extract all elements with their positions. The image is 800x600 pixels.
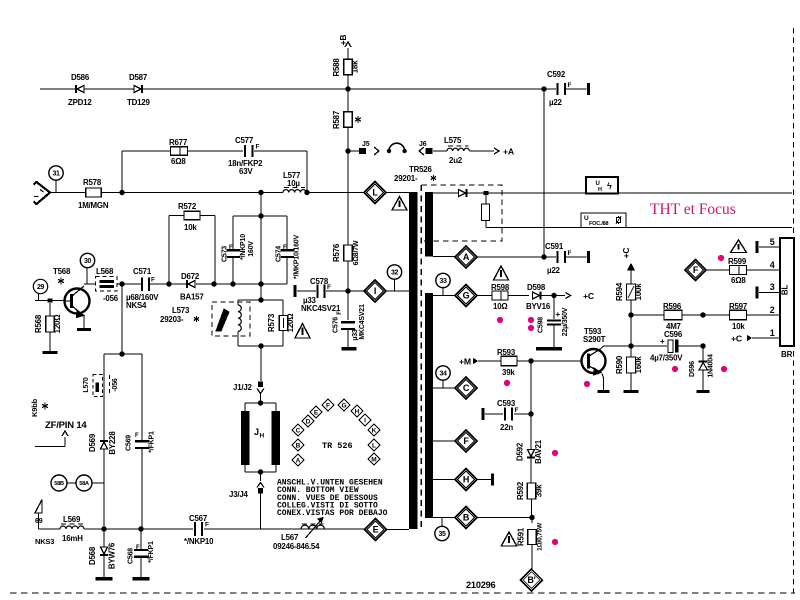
- capacitor C578: [293, 285, 296, 297]
- junction: [104, 528, 141, 530]
- svg-text:C568: C568: [128, 548, 135, 564]
- svg-text:+: +: [556, 310, 561, 319]
- junction: [258, 190, 263, 195]
- svg-text:*/FKP1: */FKP1: [148, 541, 155, 563]
- svg-text:R596: R596: [663, 302, 682, 311]
- svg-text:J6: J6: [419, 141, 427, 148]
- svg-text:TR526: TR526: [409, 165, 432, 174]
- junction: [541, 86, 546, 91]
- svg-text:F: F: [515, 407, 519, 414]
- wire R677 branch: [121, 151, 123, 193]
- resistor R588: [344, 59, 353, 75]
- ground: [624, 390, 639, 393]
- resistor R596: [664, 310, 682, 320]
- svg-text:L: L: [372, 442, 376, 449]
- svg-text:10k: 10k: [732, 322, 745, 331]
- svg-text:R677: R677: [169, 138, 188, 147]
- resistor R591: [528, 530, 537, 545]
- svg-text:ZF/PIN 14: ZF/PIN 14: [45, 420, 87, 431]
- warning triangle: [494, 266, 509, 280]
- test point B: [433, 517, 455, 519]
- junction: [101, 526, 106, 531]
- balloon 33: [436, 273, 450, 287]
- svg-text:-056: -056: [112, 378, 119, 392]
- svg-text:R572: R572: [178, 202, 197, 211]
- svg-text:L567: L567: [281, 533, 299, 542]
- resistor R594: [627, 284, 636, 300]
- svg-text:R591: R591: [517, 527, 526, 546]
- svg-text:29: 29: [37, 284, 44, 291]
- junction: [628, 312, 633, 317]
- marker dots: [497, 317, 503, 323]
- svg-text:+C: +C: [621, 248, 631, 259]
- capacitor C569: [135, 440, 149, 442]
- svg-text:J3/J4: J3/J4: [229, 490, 249, 499]
- svg-text:C593: C593: [497, 399, 516, 408]
- svg-text:I: I: [374, 286, 376, 296]
- box UFOC: [581, 213, 626, 228]
- svg-text:C569: C569: [126, 435, 133, 451]
- warning triangle: [731, 240, 747, 253]
- balloon 35: [435, 526, 449, 540]
- ground: [598, 390, 610, 393]
- test point L: [348, 192, 364, 194]
- svg-text:L573: L573: [172, 306, 190, 315]
- wire: [260, 284, 262, 300]
- transformer TR526 primary bar: [409, 192, 418, 529]
- resistor R587: [347, 89, 349, 112]
- svg-text:R597: R597: [729, 302, 748, 311]
- svg-text:BYV16: BYV16: [526, 302, 551, 311]
- svg-text:100k: 100k: [634, 283, 643, 301]
- svg-text:R573: R573: [267, 313, 276, 332]
- svg-text:*/NKP10: */NKP10: [184, 537, 214, 546]
- bus bottom: [39, 528, 61, 530]
- svg-text:F: F: [151, 277, 155, 284]
- svg-text:F: F: [568, 250, 572, 257]
- svg-text:3: 3: [770, 282, 775, 292]
- capacitor C596: [631, 345, 667, 347]
- capacitor C592: [544, 88, 556, 90]
- resistor R677: [171, 147, 188, 156]
- resistor R592: [527, 483, 536, 499]
- wire C593 branch: [530, 361, 532, 414]
- svg-text:TR 526: TR 526: [322, 441, 353, 451]
- balloon 58A: [76, 475, 92, 491]
- junction: [467, 192, 484, 194]
- connector 31 chevron: [34, 182, 51, 204]
- capacitor C576: [347, 291, 349, 320]
- connector NKS3: [35, 500, 42, 514]
- node +C: [566, 293, 571, 299]
- svg-text:4: 4: [770, 260, 775, 270]
- capacitor C574: [286, 216, 288, 250]
- svg-text:C573: C573: [222, 246, 229, 262]
- test point F: [433, 440, 455, 442]
- svg-text:THT et Focus: THT et Focus: [650, 201, 736, 218]
- svg-text:G: G: [463, 291, 470, 301]
- svg-text:ϟ: ϟ: [607, 181, 612, 191]
- resistor R598: [477, 295, 492, 297]
- svg-text:R587: R587: [332, 110, 341, 129]
- wire: [433, 192, 458, 194]
- svg-text:C592: C592: [547, 70, 566, 79]
- svg-text:F: F: [327, 284, 331, 291]
- svg-text:B: B: [296, 442, 301, 449]
- test point I: [364, 280, 386, 302]
- svg-text:R593: R593: [497, 348, 516, 357]
- junction: [166, 281, 171, 286]
- svg-text:*/NKP10: */NKP10: [240, 234, 247, 260]
- resistor R572: [169, 215, 184, 217]
- wire: [630, 315, 632, 346]
- test point F2: [685, 260, 706, 281]
- svg-text:F: F: [205, 522, 209, 529]
- capacitor C598: [553, 296, 555, 320]
- svg-text:D672: D672: [181, 272, 200, 281]
- capacitor C567: [194, 522, 196, 536]
- connector J6: [419, 147, 424, 155]
- wire: [531, 518, 533, 524]
- resistor R590: [630, 346, 632, 357]
- warning triangle: [501, 532, 517, 546]
- svg-text:J1/J2: J1/J2: [233, 383, 253, 392]
- svg-text:H: H: [260, 433, 265, 440]
- svg-text:L569: L569: [63, 515, 81, 524]
- svg-text:22µ/350V: 22µ/350V: [562, 307, 569, 336]
- wire C573 C574 top bus: [260, 193, 262, 285]
- svg-text:+A: +A: [503, 147, 515, 157]
- svg-text:T568: T568: [53, 267, 71, 276]
- svg-text:+C: +C: [583, 291, 595, 301]
- svg-text:6Ω8/7W: 6Ω8/7W: [353, 240, 360, 265]
- capacitor C568: [140, 529, 142, 550]
- ground: [697, 390, 710, 393]
- svg-text:M: M: [371, 456, 376, 463]
- wire: [238, 345, 283, 347]
- junction: [119, 190, 124, 195]
- svg-text:6Ω8: 6Ω8: [171, 157, 186, 166]
- svg-text:R598: R598: [491, 283, 510, 292]
- svg-text:BA157: BA157: [180, 293, 204, 302]
- svg-text:J5: J5: [362, 141, 370, 148]
- svg-text:+C: +C: [731, 334, 743, 344]
- resistor R573: [282, 300, 284, 316]
- diode D596: [702, 346, 704, 362]
- pin 3: [755, 287, 758, 299]
- svg-text:F: F: [283, 245, 287, 251]
- svg-text:29201-: 29201-: [394, 174, 418, 183]
- junction: [700, 343, 705, 348]
- svg-text:F: F: [135, 433, 139, 439]
- svg-text:C596: C596: [664, 330, 683, 339]
- svg-text:E: E: [314, 409, 319, 416]
- svg-text:H: H: [598, 187, 602, 193]
- svg-text:B': B': [527, 575, 535, 585]
- wire: [121, 284, 123, 354]
- junction: [529, 515, 534, 520]
- svg-text:A: A: [463, 252, 470, 262]
- svg-text:K9bb: K9bb: [30, 398, 39, 417]
- svg-text:F: F: [136, 545, 140, 551]
- svg-text:5: 5: [770, 237, 775, 247]
- junction: [345, 86, 350, 91]
- svg-text:10Ω: 10Ω: [493, 302, 508, 311]
- svg-text:BY228: BY228: [108, 431, 117, 455]
- diode D586: [77, 86, 84, 93]
- dashed box: [421, 185, 502, 241]
- wire: [214, 216, 216, 285]
- resistor R597: [703, 314, 729, 316]
- svg-text:120Ω: 120Ω: [286, 314, 295, 333]
- svg-text:BL: BL: [781, 285, 790, 296]
- svg-text:B: B: [463, 513, 470, 523]
- test point G: [433, 295, 455, 297]
- inductor L577: [261, 192, 283, 194]
- svg-text:µ33: µ33: [352, 329, 359, 341]
- svg-text:-056: -056: [103, 294, 119, 303]
- svg-text:18k: 18k: [351, 60, 360, 73]
- svg-text:6Ω8: 6Ω8: [731, 276, 746, 285]
- svg-text:29203-: 29203-: [160, 315, 184, 324]
- svg-text:09246-846.54: 09246-846.54: [273, 542, 320, 551]
- svg-text:10k: 10k: [184, 223, 197, 232]
- svg-text:C577: C577: [235, 136, 254, 145]
- svg-text:1N4004: 1N4004: [708, 354, 715, 378]
- ground: [77, 328, 91, 331]
- junction: [551, 293, 556, 298]
- junction: [119, 281, 124, 286]
- svg-text:C: C: [463, 383, 470, 393]
- svg-text:R568: R568: [34, 314, 43, 333]
- svg-text:µ22: µ22: [547, 266, 561, 275]
- balloon 31: [49, 166, 63, 180]
- resistor R576: [347, 151, 349, 245]
- ground: [96, 577, 113, 580]
- ground: [133, 577, 150, 580]
- junction: [211, 281, 216, 286]
- svg-text:120Ω: 120Ω: [53, 315, 62, 334]
- balloon 29: [33, 279, 47, 293]
- svg-text:TD129: TD129: [127, 98, 150, 107]
- wire emitter: [602, 374, 604, 379]
- svg-text:L570: L570: [83, 377, 90, 392]
- svg-text:2u2: 2u2: [449, 156, 463, 165]
- svg-text:F: F: [463, 436, 469, 446]
- svg-text:ZPD12: ZPD12: [68, 98, 92, 107]
- diode D569: [101, 442, 108, 449]
- wire emitter: [83, 316, 85, 328]
- wire THT upper: [488, 192, 792, 194]
- svg-text:R588: R588: [332, 58, 341, 77]
- diode D672: [169, 283, 186, 285]
- svg-text:31: 31: [53, 171, 60, 178]
- svg-text:C576: C576: [333, 317, 340, 333]
- svg-text:D: D: [306, 418, 311, 425]
- svg-text:160k: 160k: [634, 356, 643, 374]
- page border right (dashed): [793, 28, 795, 593]
- resistor R599: [730, 266, 747, 275]
- ground: [536, 347, 562, 350]
- svg-text:NKC4SV21: NKC4SV21: [301, 304, 341, 313]
- wire jumper: [387, 149, 391, 153]
- svg-text:L575: L575: [444, 136, 462, 145]
- svg-text:F: F: [693, 265, 699, 275]
- svg-text:H: H: [463, 475, 469, 485]
- svg-text:C: C: [296, 427, 301, 434]
- svg-text:2: 2: [770, 305, 775, 315]
- wire THT lower: [486, 227, 792, 229]
- inductor L573: [237, 300, 239, 305]
- main bus y192: [122, 192, 261, 194]
- balloon 32: [387, 265, 401, 279]
- transformer core (dashed): [420, 185, 422, 531]
- svg-text:*/MKP10/160V: */MKP10/160V: [294, 235, 301, 279]
- svg-text:1: 1: [770, 328, 775, 338]
- svg-text:39k: 39k: [502, 368, 515, 377]
- balloon 58B: [51, 475, 67, 491]
- svg-text:22n: 22n: [500, 423, 513, 432]
- resistor R568: [49, 303, 51, 316]
- transformer TR526 secondary bar upper: [425, 192, 433, 257]
- junction: [230, 281, 235, 286]
- box UH: [586, 177, 618, 194]
- bus R596: [631, 314, 664, 316]
- capacitor C591: [541, 254, 546, 259]
- svg-text:E: E: [373, 525, 379, 535]
- svg-text:32: 32: [391, 270, 398, 277]
- svg-text:K: K: [372, 427, 377, 434]
- test point A: [433, 256, 455, 258]
- diode D568: [103, 529, 105, 547]
- capacitor C577: [244, 145, 246, 157]
- svg-text:D596: D596: [689, 361, 696, 377]
- svg-text:63V: 63V: [239, 167, 253, 176]
- diode D: [459, 190, 466, 197]
- svg-text:R592: R592: [516, 481, 525, 500]
- wire: [306, 151, 308, 193]
- svg-text:D586: D586: [71, 73, 90, 82]
- svg-text:D587: D587: [129, 73, 148, 82]
- svg-text:210296: 210296: [466, 580, 496, 590]
- svg-text:CONEX.VISTAS POR DEBAJO: CONEX.VISTAS POR DEBAJO: [277, 509, 388, 518]
- wire: [348, 290, 366, 292]
- svg-text:33: 33: [440, 278, 447, 285]
- svg-text:G: G: [341, 402, 346, 409]
- junction: [345, 288, 350, 293]
- junction: [304, 190, 309, 195]
- wire: [168, 216, 170, 285]
- test point B': [521, 569, 543, 591]
- capacitor C573: [232, 216, 234, 250]
- svg-text:FOC./88: FOC./88: [589, 221, 609, 227]
- svg-text:J: J: [254, 427, 259, 437]
- svg-text:1M/MGN: 1M/MGN: [78, 201, 109, 210]
- svg-text:4µ7/350V: 4µ7/350V: [650, 354, 683, 363]
- capacitor C593: [481, 408, 484, 420]
- connector J5: [348, 150, 359, 152]
- svg-text:MKC4SV21: MKC4SV21: [359, 304, 366, 340]
- diode D587: [134, 86, 141, 93]
- svg-text:+M: +M: [459, 357, 471, 367]
- test point H: [433, 479, 455, 481]
- svg-text:30: 30: [84, 258, 91, 265]
- junction: [528, 411, 533, 416]
- inductor L568: [96, 277, 118, 292]
- diode D598: [533, 292, 540, 299]
- balloon 30: [80, 253, 94, 267]
- svg-text:58B: 58B: [54, 481, 64, 487]
- svg-text:16mH: 16mH: [62, 534, 83, 543]
- svg-text:I: I: [364, 417, 366, 424]
- svg-text:µ22: µ22: [549, 98, 563, 107]
- junction: [258, 281, 263, 286]
- transformer JH: [258, 400, 263, 405]
- inductor L569: [60, 526, 84, 529]
- svg-text:F: F: [256, 144, 260, 151]
- svg-text:F: F: [568, 82, 572, 89]
- snubber resistor: [485, 195, 487, 204]
- svg-text:10µ: 10µ: [287, 179, 300, 188]
- svg-text:L568: L568: [96, 267, 114, 276]
- junction: [528, 358, 533, 363]
- svg-text:39k: 39k: [535, 484, 544, 497]
- resistor R578: [50, 192, 86, 194]
- junction: [48, 299, 53, 303]
- svg-text:BAV21: BAV21: [534, 439, 543, 464]
- svg-text:A: A: [296, 457, 301, 464]
- test point E: [363, 529, 365, 531]
- svg-text:R594: R594: [615, 282, 624, 301]
- svg-text:58A: 58A: [79, 481, 90, 487]
- svg-text:C574: C574: [276, 246, 283, 262]
- diode D592: [530, 414, 532, 449]
- capacitor C571: [141, 277, 143, 291]
- test point C: [433, 387, 455, 389]
- svg-text:R578: R578: [83, 178, 102, 187]
- transformer TR526 secondary bar lower: [425, 293, 433, 518]
- pin 5: [755, 241, 758, 253]
- junction: [345, 148, 350, 153]
- page border bottom (dashed): [10, 592, 795, 594]
- ground: [342, 347, 357, 350]
- wire top bus: [40, 88, 76, 90]
- svg-text:C591: C591: [545, 242, 564, 251]
- svg-text:D568: D568: [88, 546, 97, 565]
- warning triangle: [392, 197, 407, 211]
- ground: [43, 351, 58, 354]
- svg-text:F: F: [229, 245, 233, 251]
- balloon 34: [436, 366, 450, 380]
- svg-text:R576: R576: [332, 243, 341, 262]
- junction: [628, 343, 633, 348]
- svg-text:C598: C598: [538, 317, 545, 333]
- wire: [543, 89, 545, 257]
- svg-text:1Ω/0,75W: 1Ω/0,75W: [537, 522, 544, 551]
- svg-text:R590: R590: [615, 355, 624, 374]
- node +A: [494, 148, 499, 154]
- svg-text:BYW76: BYW76: [108, 542, 117, 569]
- svg-text:D569: D569: [88, 433, 97, 452]
- svg-text:D592: D592: [516, 442, 525, 461]
- junction: [700, 312, 705, 317]
- connector BL: [780, 238, 794, 346]
- wire base: [35, 300, 65, 302]
- svg-text:C571: C571: [133, 267, 152, 276]
- svg-text:*/FKP1: */FKP1: [149, 431, 156, 453]
- svg-text:NKS4: NKS4: [126, 301, 147, 310]
- svg-text:160V: 160V: [248, 241, 255, 257]
